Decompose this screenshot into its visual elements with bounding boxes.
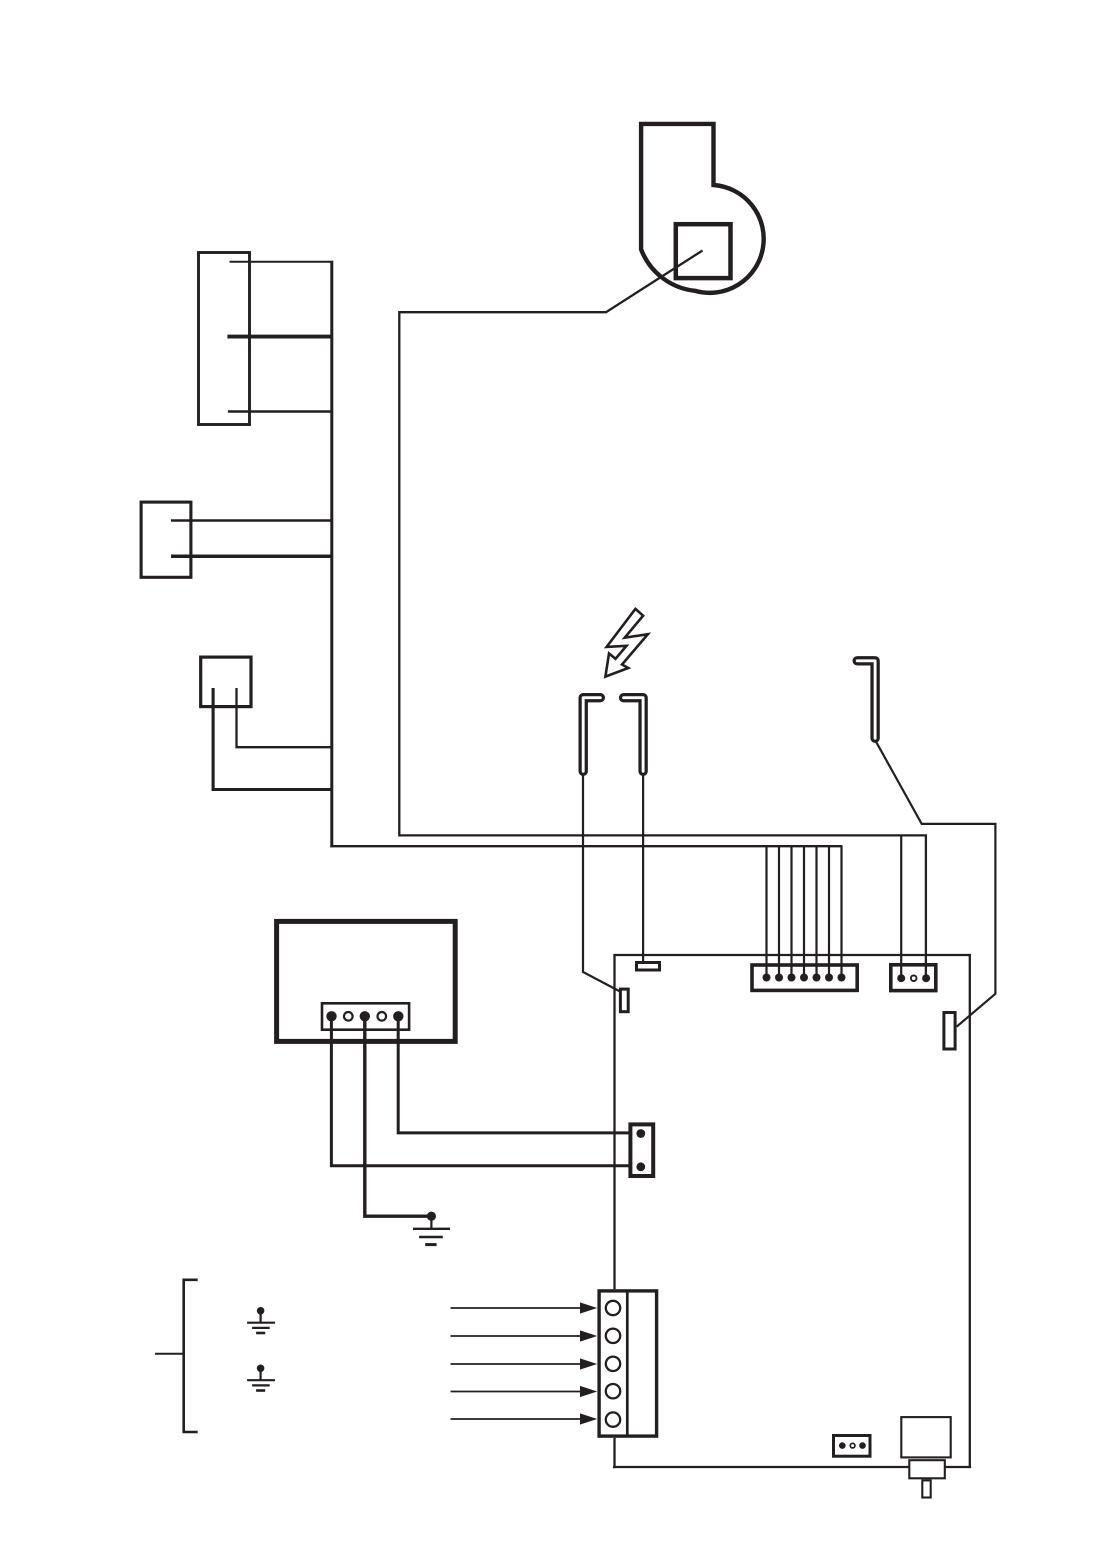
wire thermostat R to J3 bottom: [331, 1018, 640, 1166]
connector J3 2-pin shell: [630, 1124, 653, 1176]
wire J1 pin 2 lead: [778, 845, 780, 977]
control board outline bottom edge: [613, 1466, 971, 1468]
wire J1 pin 1 lead: [765, 845, 767, 977]
J4 pin 2 (open): [850, 1443, 855, 1448]
J1 pin 7: [838, 974, 846, 982]
J1 pin 3: [788, 974, 796, 982]
line voltage plug neck: [909, 1460, 945, 1478]
spark / high-voltage bolt symbol: [605, 609, 648, 677]
J1 pin 6: [825, 974, 833, 982]
J1 pin 4: [800, 974, 808, 982]
igniter terminal right (spade): [624, 698, 644, 772]
inducer blower motor M1: [641, 124, 764, 293]
relay box R2: [141, 502, 191, 577]
wire igniter left terminal lead: [583, 773, 620, 991]
J1 pin 5: [813, 974, 821, 982]
connector J2 3-pin shell: [891, 965, 936, 991]
wire R1 middle lead: [227, 335, 333, 339]
board tab terminal E3: [944, 1013, 955, 1050]
TB1 terminal 4: [606, 1384, 620, 1398]
thermostat pin 2 (open): [344, 1012, 353, 1021]
thermostat pin 1: [326, 1011, 336, 1021]
wire thermostat W to J3 top: [398, 1018, 641, 1133]
J1 pin 2: [775, 974, 783, 982]
control board outline left edge upper: [613, 954, 615, 1289]
J2 pin 1: [897, 974, 905, 982]
thermostat pin 4 (open): [378, 1012, 387, 1021]
wire R3 left stub: [213, 688, 332, 790]
J3 pin 1: [636, 1129, 645, 1138]
motor M1 hub square: [676, 224, 731, 278]
ground symbol G0: [413, 1216, 450, 1245]
field wire arrow 4: [451, 1386, 598, 1397]
wire J1 pin 5 lead: [815, 845, 817, 977]
TB1 terminal 2: [606, 1329, 620, 1343]
line voltage plug body: [901, 1417, 950, 1457]
J4 pin 1: [839, 1442, 846, 1449]
wire R1 bottom lead: [228, 410, 333, 413]
TB1 terminal 1: [606, 1301, 620, 1315]
field wiring bracket: [155, 1280, 198, 1432]
ground symbol G2: [247, 1365, 275, 1391]
limit control box R1: [199, 253, 250, 425]
board tab terminal E1: [620, 989, 628, 1012]
igniter terminal left (spade): [583, 698, 600, 772]
ground symbol G1: [247, 1307, 275, 1333]
thermostat terminal strip: [322, 1003, 409, 1029]
TB1 terminal 5: [606, 1412, 620, 1426]
wire motor leader to board: [399, 251, 926, 977]
wire R1 top lead: [230, 261, 334, 263]
wire R3 right stub: [237, 688, 333, 747]
wire R2 top lead: [171, 519, 333, 521]
board tab terminal E2: [637, 963, 660, 971]
wire vertical bus: [330, 261, 333, 848]
field wire arrow 3: [451, 1358, 598, 1369]
J2 pin 2 (open): [911, 975, 917, 981]
TB1 divider: [626, 1291, 629, 1436]
J4 pin 3: [859, 1442, 866, 1449]
wire J1 pin 4 lead: [803, 845, 805, 977]
flame sensor terminal (spade): [857, 661, 875, 738]
junction dot ground node: [427, 1212, 436, 1221]
field wire arrow 5: [451, 1413, 598, 1424]
wire flame sensor lead: [875, 740, 995, 1027]
terminal block TB1 shell: [599, 1291, 657, 1436]
wire igniter right terminal lead: [642, 773, 644, 963]
wire J2 left pin lead: [900, 835, 902, 976]
thermostat box: [277, 921, 456, 1041]
field wire arrow 2: [451, 1330, 598, 1341]
TB1 terminal 3: [606, 1357, 620, 1371]
connector J1 7-pin shell: [752, 965, 857, 990]
wire J1 pin 3 lead: [790, 845, 792, 977]
switch box R3: [201, 657, 251, 707]
J3 pin 2: [636, 1162, 645, 1171]
line voltage plug blade: [922, 1480, 930, 1497]
field wire arrow 1: [451, 1302, 598, 1313]
control board outline top edge: [615, 954, 970, 956]
control board outline left edge lower: [613, 1438, 615, 1468]
wire thermostat C to ground: [365, 1018, 432, 1216]
thermostat pin 3: [360, 1011, 370, 1021]
wire R2 bottom lead: [171, 555, 333, 559]
J1 pin 1: [763, 974, 771, 982]
wire J1 pin 7 lead: [840, 845, 842, 977]
J2 pin 3: [922, 974, 930, 982]
connector J4 3-pin shell: [834, 1436, 871, 1457]
thermostat pin 5: [393, 1011, 403, 1021]
wire harness run to connector J1: [330, 845, 841, 847]
control board outline right edge: [969, 954, 971, 1467]
wire J1 pin 6 lead: [828, 845, 830, 977]
